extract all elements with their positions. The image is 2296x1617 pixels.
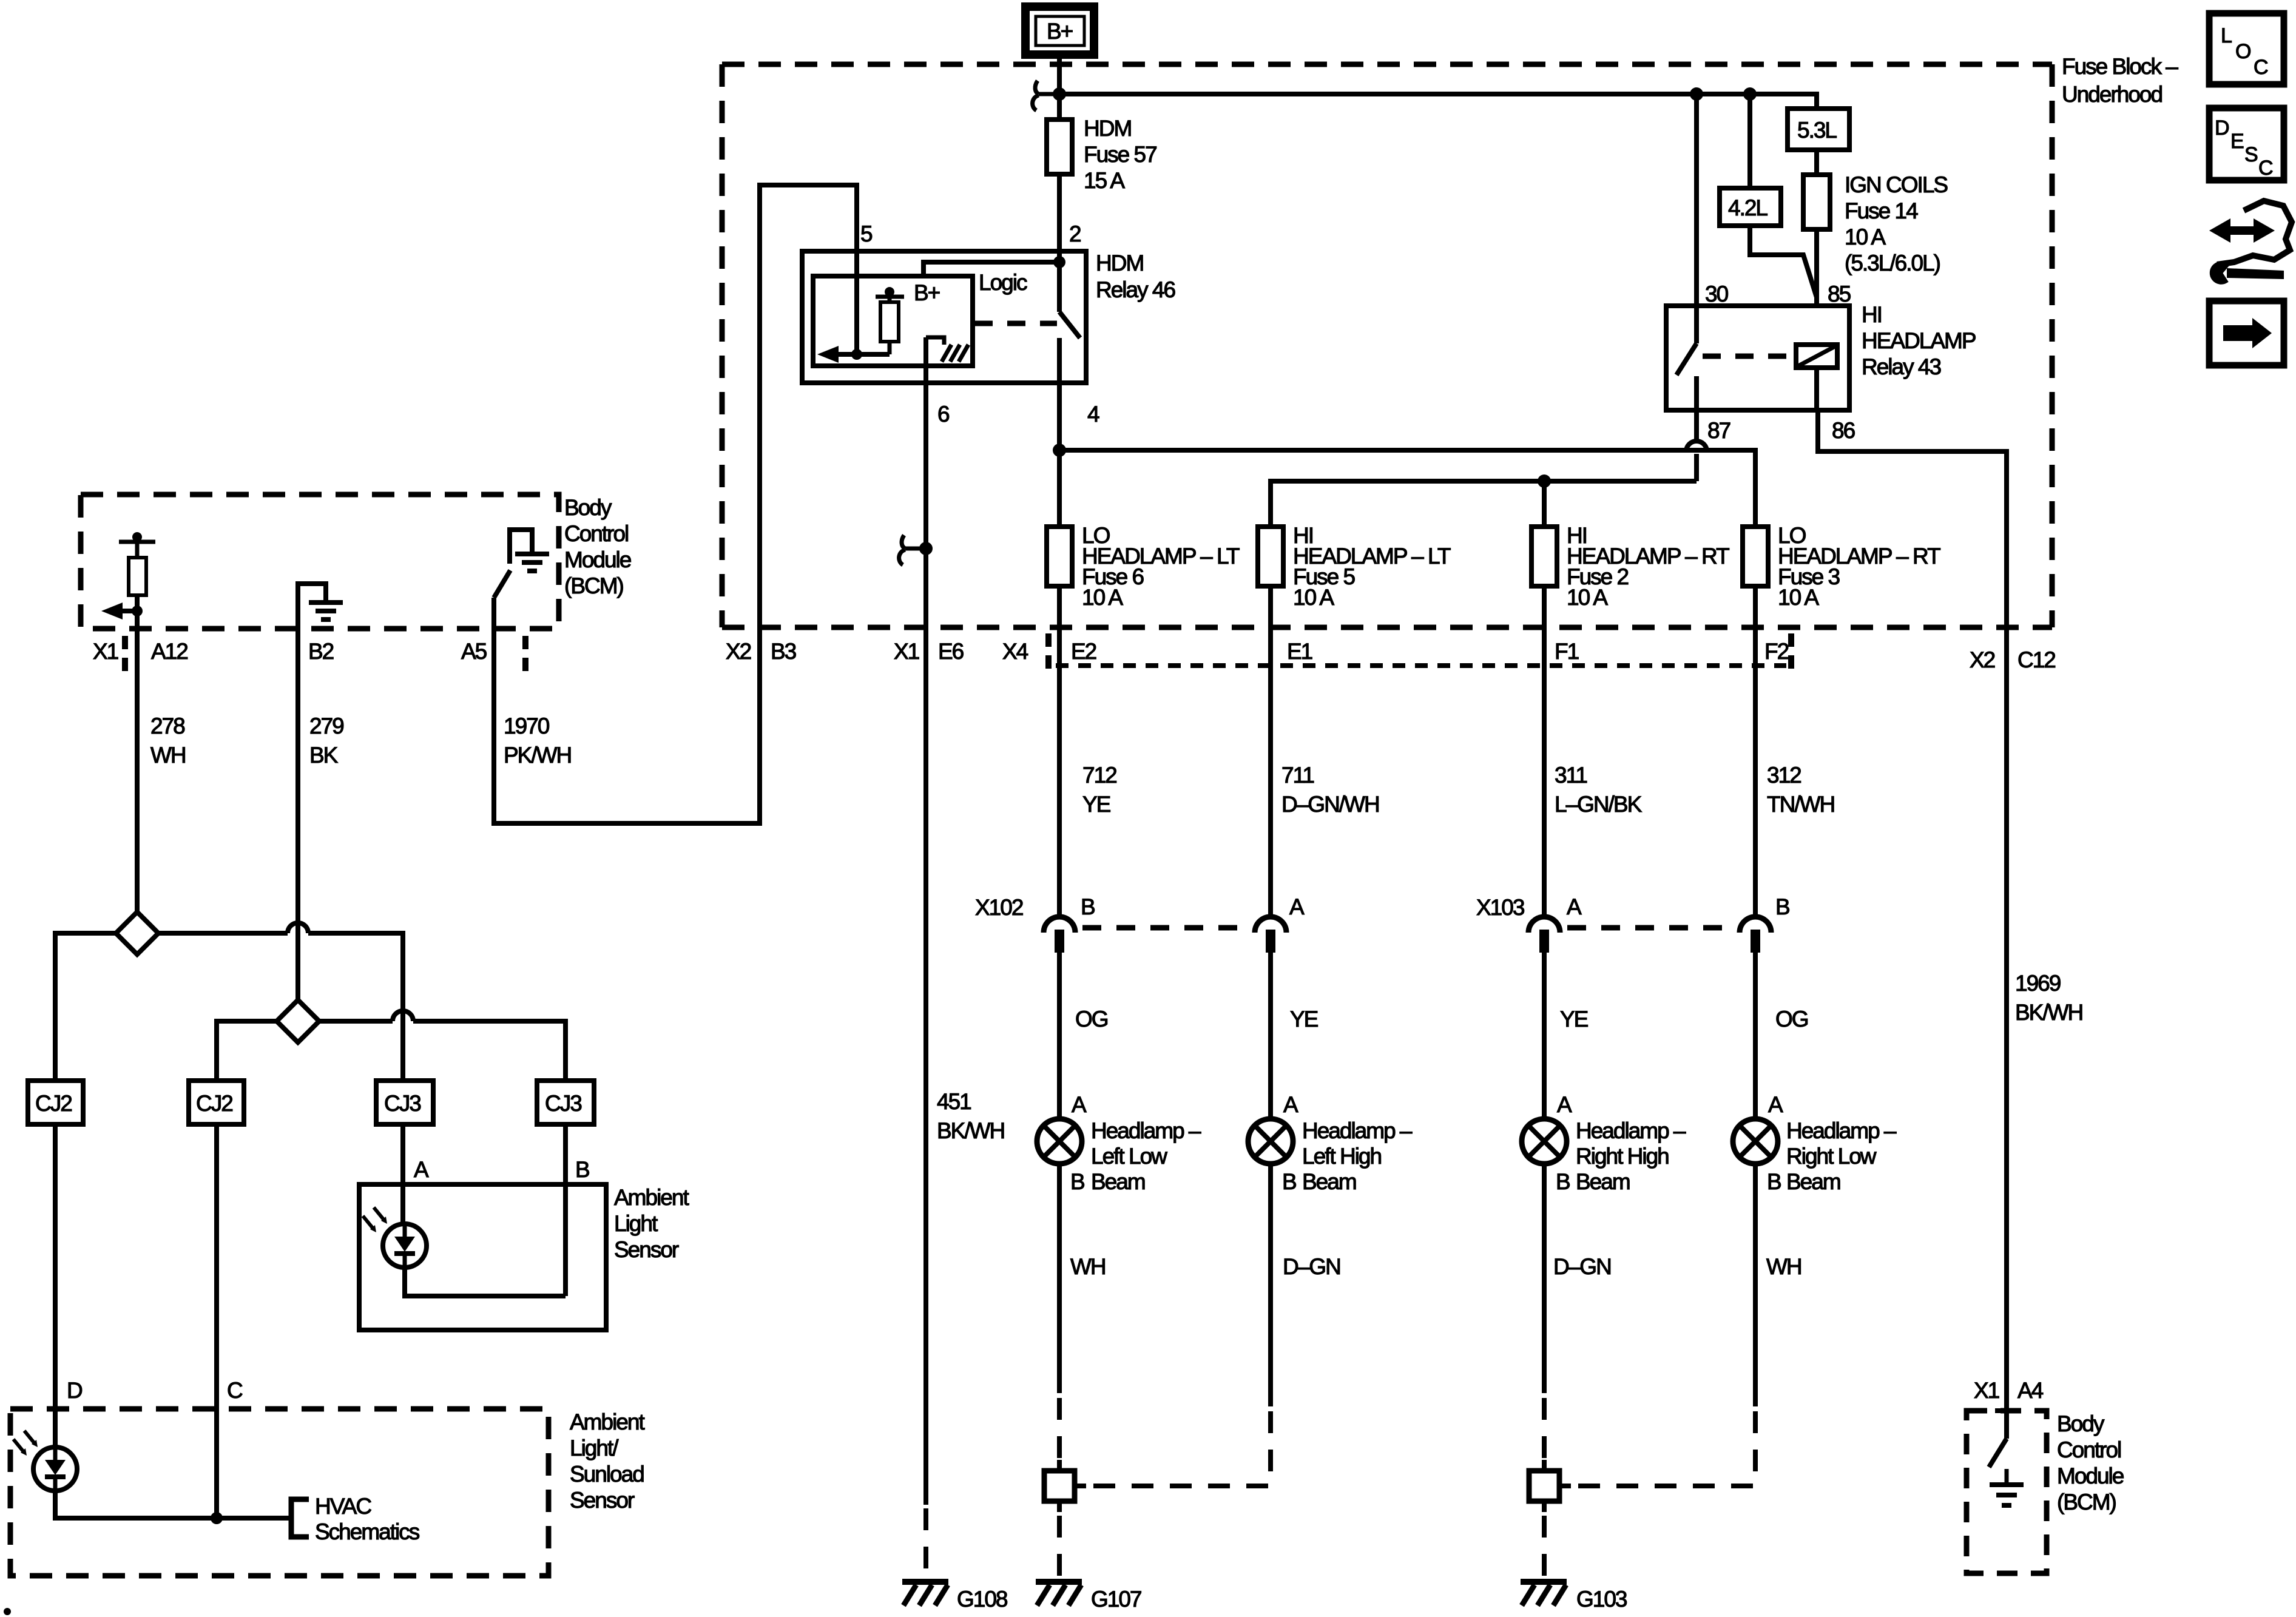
svg-text:YE: YE <box>1560 1007 1589 1031</box>
splice diamond 1 <box>116 912 158 954</box>
wire label 278 WH <box>150 714 186 768</box>
relay46 internal B+ feed wire <box>923 262 1059 276</box>
svg-text:BK: BK <box>309 743 339 768</box>
sensor photodiode <box>363 1207 427 1268</box>
svg-text:A: A <box>1768 1092 1783 1117</box>
logic internal B+ terminal <box>876 280 940 305</box>
junction dot fuse2 feed <box>1538 474 1551 488</box>
svg-text:OG: OG <box>1775 1007 1808 1031</box>
junction dot pin4 <box>1053 444 1066 457</box>
svg-text:B: B <box>1282 1169 1296 1194</box>
svg-text:G103: G103 <box>1576 1587 1627 1612</box>
svg-text:Control: Control <box>2057 1437 2121 1462</box>
wire CJ2b down to sunload box <box>214 1124 219 1518</box>
svg-text:5.3L: 5.3L <box>1797 118 1837 143</box>
wire LO feed: relay46 pin4 junction to fuse3 (line A) <box>1059 450 1755 527</box>
svg-text:87: 87 <box>1707 418 1730 443</box>
svg-text:X1: X1 <box>894 639 919 664</box>
clip symbol at E6 wire <box>899 535 927 565</box>
wire bulb2 B down <box>1268 1164 1273 1406</box>
svg-text:A: A <box>1289 894 1305 919</box>
wire label 311 L-GN/BK <box>1555 763 1643 817</box>
wire fuse57 to relay pin2 <box>1057 174 1062 262</box>
BCM A4 ground <box>1990 1469 2024 1505</box>
svg-text:O: O <box>2235 40 2251 63</box>
dashed wire bulb4 to splice2 <box>1571 1411 1755 1486</box>
sunload photodiode <box>13 1431 77 1491</box>
svg-text:B: B <box>575 1157 589 1182</box>
svg-text:6: 6 <box>937 402 949 427</box>
wire F1 fuse2 to X103 <box>1542 586 1547 917</box>
svg-text:CJ3: CJ3 <box>384 1091 420 1116</box>
wire bulb1 B down <box>1057 1164 1062 1393</box>
svg-text:A: A <box>1283 1092 1298 1117</box>
relay46 junction dot pin2 <box>1053 256 1065 268</box>
svg-text:C: C <box>227 1378 243 1403</box>
svg-text:X1: X1 <box>1974 1378 1999 1403</box>
svg-text:HDM: HDM <box>1096 251 1143 275</box>
splice diamond 2 <box>277 1000 319 1042</box>
svg-text:B+: B+ <box>1047 19 1073 44</box>
svg-text:1969: 1969 <box>2015 971 2061 996</box>
svg-text:B2: B2 <box>308 639 334 664</box>
svg-text:Fuse 14: Fuse 14 <box>1845 198 1918 223</box>
svg-text:Fuse 57: Fuse 57 <box>1084 142 1156 167</box>
svg-text:10 A: 10 A <box>1567 585 1608 610</box>
wire resistor to output line <box>888 342 892 354</box>
page dot bottom left <box>4 1608 11 1615</box>
svg-text:E6: E6 <box>938 639 964 664</box>
relay43 coil box <box>1796 345 1837 368</box>
connector CJ2 b <box>189 1081 244 1124</box>
svg-text:Headlamp –: Headlamp – <box>1302 1118 1413 1143</box>
wire F2 fuse3 to X103 <box>1753 586 1758 917</box>
connector labels X1 A4 <box>1974 1378 2044 1403</box>
connector labels along fuse block bottom <box>726 639 2055 672</box>
icon LOC box <box>2209 13 2284 84</box>
svg-text:Relay 43: Relay 43 <box>1862 354 1940 379</box>
BCM A12 resistor <box>129 558 146 595</box>
svg-text:X4: X4 <box>1002 639 1028 664</box>
BCM A12 supply terminal <box>119 532 155 558</box>
fuse LO HEADLAMP - RT Fuse 3 <box>1743 523 1940 610</box>
svg-text:D: D <box>67 1378 82 1403</box>
junction dot B+ bus <box>1053 87 1066 101</box>
svg-text:Beam: Beam <box>1091 1169 1145 1194</box>
svg-text:311: 311 <box>1555 763 1587 788</box>
svg-text:X102: X102 <box>975 895 1023 920</box>
svg-text:G107: G107 <box>1091 1587 1141 1612</box>
wire pin5 inside relay <box>854 251 859 354</box>
5.3L box <box>1788 109 1849 150</box>
connector labels X1 A12 B2 A5 <box>93 636 525 672</box>
svg-text:2: 2 <box>1069 221 1081 246</box>
junction dot E6 clip <box>919 542 933 555</box>
svg-text:YE: YE <box>1290 1007 1319 1031</box>
HVAC schematics bracket <box>291 1494 420 1544</box>
wire relay43 pin87 down with hop <box>1686 410 1707 481</box>
icon wrench with arrows <box>2209 201 2292 283</box>
svg-text:Beam: Beam <box>1786 1169 1840 1194</box>
svg-text:86: 86 <box>1832 418 1855 443</box>
svg-text:278: 278 <box>150 714 184 738</box>
svg-text:PK/WH: PK/WH <box>504 743 571 768</box>
svg-text:Right High: Right High <box>1576 1144 1669 1169</box>
wire label 312 TN/WH <box>1767 763 1834 817</box>
fuse block underhood dashed boundary <box>722 64 2052 627</box>
icon DESC box <box>2209 108 2284 180</box>
svg-text:X2: X2 <box>726 639 751 664</box>
svg-text:D: D <box>2215 116 2230 140</box>
wire A12 down <box>135 611 140 912</box>
svg-text:BK/WH: BK/WH <box>937 1118 1004 1143</box>
wire fuse2 feed down <box>1542 481 1547 527</box>
wire bulb4 B down <box>1753 1164 1758 1406</box>
4.2L box <box>1720 188 1781 226</box>
svg-text:A5: A5 <box>461 639 487 664</box>
wire label 712 YE <box>1082 763 1116 817</box>
svg-text:Beam: Beam <box>1576 1169 1630 1194</box>
svg-text:A: A <box>1557 1092 1572 1117</box>
svg-text:A12: A12 <box>151 639 187 664</box>
bulb headlamp right low beam <box>1733 1092 1897 1194</box>
Ambient Light/Sunload Sensor dashed box <box>10 1409 645 1576</box>
svg-text:Sunload: Sunload <box>570 1462 644 1487</box>
svg-text:A4: A4 <box>2017 1378 2044 1403</box>
svg-text:OG: OG <box>1075 1007 1108 1031</box>
svg-text:Underhood: Underhood <box>2062 82 2163 107</box>
fuse HI HEADLAMP - LT Fuse 5 <box>1258 523 1451 610</box>
svg-text:Headlamp –: Headlamp – <box>1576 1118 1686 1143</box>
wire label 711 D-GN/WH <box>1281 763 1379 817</box>
svg-text:Ambient: Ambient <box>614 1185 689 1210</box>
wire E2 fuse6 to X102 <box>1057 586 1062 917</box>
svg-text:HEADLAMP: HEADLAMP <box>1862 328 1976 353</box>
svg-text:B: B <box>1070 1169 1084 1194</box>
B+ power symbol <box>1025 7 1094 55</box>
svg-text:L–GN/BK: L–GN/BK <box>1555 792 1643 817</box>
svg-text:Logic: Logic <box>979 270 1027 295</box>
svg-text:Right Low: Right Low <box>1786 1144 1877 1169</box>
connector X4 dashed line <box>1048 633 1791 670</box>
svg-text:451: 451 <box>937 1089 971 1114</box>
svg-text:711: 711 <box>1281 763 1314 788</box>
svg-text:C: C <box>2258 157 2274 180</box>
wire CJ2a down to sunload box <box>53 1124 58 1448</box>
ground G103 <box>1521 1582 1627 1612</box>
svg-text:A: A <box>1072 1092 1087 1117</box>
dashed wire bulb3 to splice <box>1542 1398 1547 1463</box>
wire coil to pin86 <box>1814 368 1819 410</box>
svg-text:X103: X103 <box>1476 895 1524 920</box>
wire X102A to bulb2 <box>1268 953 1273 1119</box>
svg-text:10 A: 10 A <box>1778 585 1819 610</box>
clip symbol at B+ junction <box>1033 81 1059 110</box>
svg-text:Left Low: Left Low <box>1091 1144 1167 1169</box>
dashed wire splice2 to G103 <box>1542 1516 1547 1579</box>
BCM bottom-right label <box>2057 1411 2124 1514</box>
wire 4.2L to pin85 <box>1750 226 1817 297</box>
svg-text:15 A: 15 A <box>1084 168 1125 193</box>
BCM bottom-right dashed box <box>1967 1411 2047 1573</box>
wire IGN fuse to relay43 pin85 <box>1814 229 1819 306</box>
svg-text:Headlamp –: Headlamp – <box>1786 1118 1897 1143</box>
bus wire to 5.3L <box>1059 94 1817 109</box>
logic junction dot pin5 <box>851 349 862 360</box>
wire relay43 pin86 to right edge <box>1818 410 2007 1411</box>
wire relay pin6 down through E6 <box>923 337 928 1505</box>
relay46 switch blade <box>1059 262 1080 338</box>
fuse IGN COILS Fuse 14 <box>1803 172 1947 275</box>
BCM A12 output arrow <box>101 595 143 619</box>
connector CJ3 b <box>537 1081 594 1124</box>
svg-text:X2: X2 <box>1970 647 1995 672</box>
svg-text:10 A: 10 A <box>1293 585 1334 610</box>
svg-text:1970: 1970 <box>504 714 550 738</box>
svg-text:(BCM): (BCM) <box>2057 1490 2116 1514</box>
bulb headlamp right high beam <box>1522 1092 1686 1194</box>
wire CJ3a down to sensor <box>400 1124 405 1224</box>
svg-text:B: B <box>1767 1169 1781 1194</box>
svg-text:30: 30 <box>1705 282 1729 306</box>
wire sunload diode to HVAC <box>55 1490 291 1518</box>
connector CJ3 a <box>376 1081 433 1124</box>
bulb headlamp left low beam <box>1037 1092 1201 1194</box>
svg-text:CJ2: CJ2 <box>196 1091 232 1116</box>
svg-text:B3: B3 <box>771 639 796 664</box>
svg-text:B: B <box>1556 1169 1570 1194</box>
wire 5.3L to IGN fuse <box>1814 150 1819 175</box>
icon arrow box <box>2209 301 2284 365</box>
svg-text:E2: E2 <box>1071 639 1096 664</box>
svg-text:HI: HI <box>1862 302 1882 327</box>
logic output wire with left arrow <box>817 346 890 363</box>
junction dot bus relay30 <box>1690 87 1703 101</box>
svg-text:YE: YE <box>1082 792 1111 817</box>
svg-text:IGN COILS: IGN COILS <box>1845 172 1947 197</box>
splice square 2 <box>1529 1460 1571 1512</box>
svg-text:A: A <box>1567 894 1582 919</box>
relay43 switch blade <box>1676 306 1697 410</box>
svg-text:X1: X1 <box>93 639 118 664</box>
fuse HI HEADLAMP - RT Fuse 2 <box>1531 523 1729 610</box>
junction dot bus 4.2L <box>1743 87 1757 101</box>
wire diamond1 left branch to CJ2a <box>55 933 116 1081</box>
svg-text:4.2L: 4.2L <box>1728 195 1768 220</box>
svg-text:TN/WH: TN/WH <box>1767 792 1834 817</box>
dashed wire bulb1 to splice <box>1057 1398 1062 1463</box>
svg-text:D–GN: D–GN <box>1283 1254 1340 1279</box>
svg-text:C: C <box>2254 56 2269 79</box>
logic resistor (coil) <box>880 302 899 342</box>
svg-text:C12: C12 <box>2017 647 2055 672</box>
svg-text:Control: Control <box>564 521 628 546</box>
svg-text:312: 312 <box>1767 763 1801 788</box>
wire B2 down <box>295 629 300 1000</box>
wire bus to 4.2L <box>1747 94 1752 188</box>
svg-text:Relay 46: Relay 46 <box>1096 277 1175 302</box>
wire bulb3 B down <box>1542 1164 1547 1393</box>
svg-text:4: 4 <box>1087 402 1099 427</box>
ground G107 <box>1036 1582 1141 1612</box>
connector X103 <box>1476 894 1789 953</box>
svg-text:S: S <box>2244 143 2258 166</box>
dashed wire splice1 to G107 <box>1057 1516 1062 1579</box>
svg-text:Body: Body <box>2057 1411 2105 1436</box>
relay46 logic box <box>813 276 973 366</box>
ground G108 <box>902 1582 1007 1612</box>
svg-text:E1: E1 <box>1287 639 1312 664</box>
relay46 switch dashed actuator line <box>974 321 1057 326</box>
svg-text:5: 5 <box>860 221 873 246</box>
svg-text:Ambient: Ambient <box>570 1409 645 1434</box>
svg-text:F1: F1 <box>1555 639 1579 664</box>
BCM B2 ground <box>298 584 343 629</box>
svg-text:CJ2: CJ2 <box>35 1091 72 1116</box>
svg-text:(5.3L/6.0L): (5.3L/6.0L) <box>1845 251 1940 275</box>
svg-text:Beam: Beam <box>1302 1169 1356 1194</box>
svg-text:Left High: Left High <box>1302 1144 1382 1169</box>
wire E1 fuse5 to X102 <box>1268 586 1273 917</box>
svg-text:HDM: HDM <box>1084 116 1131 141</box>
svg-text:Schematics: Schematics <box>315 1519 420 1544</box>
svg-text:L: L <box>2221 24 2232 47</box>
svg-text:CJ3: CJ3 <box>545 1091 581 1116</box>
svg-text:E: E <box>2230 130 2244 153</box>
BCM label <box>564 495 631 598</box>
svg-text:F2: F2 <box>1764 639 1789 664</box>
svg-text:712: 712 <box>1082 763 1116 788</box>
svg-text:WH: WH <box>1766 1254 1801 1279</box>
svg-text:Sensor: Sensor <box>570 1488 635 1513</box>
splice square 1 <box>1044 1460 1086 1512</box>
wire X102B to bulb1 <box>1057 953 1062 1119</box>
svg-text:D–GN/WH: D–GN/WH <box>1281 792 1379 817</box>
fuse HDM Fuse 57 <box>1047 116 1156 193</box>
svg-text:A: A <box>414 1157 429 1182</box>
logic ground symbol <box>926 337 968 362</box>
wire label 279 BK <box>309 714 343 768</box>
svg-text:Light/: Light/ <box>570 1436 619 1460</box>
svg-text:BK/WH: BK/WH <box>2015 1000 2082 1025</box>
wire X103A to bulb3 <box>1542 953 1547 1119</box>
wire relay pin5 elbow to B3 <box>494 185 857 823</box>
svg-text:Headlamp –: Headlamp – <box>1091 1118 1201 1143</box>
dashed wire bulb2 to splice1 <box>1086 1411 1271 1486</box>
svg-text:HVAC: HVAC <box>315 1494 371 1519</box>
connector CJ2 a <box>28 1081 83 1124</box>
sensor internal loop wire <box>405 1267 566 1296</box>
svg-text:10 A: 10 A <box>1082 585 1123 610</box>
wire diamond1 right branch to CJ3a with hop <box>158 923 403 1081</box>
BCM A5 switch to ground <box>494 530 549 629</box>
relay43 dashed actuator line <box>1703 354 1791 359</box>
svg-text:Fuse Block –: Fuse Block – <box>2062 54 2178 79</box>
svg-text:(BCM): (BCM) <box>564 573 624 598</box>
wire label 1969 BK/WH <box>2015 971 2082 1025</box>
wire B+ to bus <box>1057 58 1062 120</box>
wire label 1970 PK/WH <box>504 714 571 768</box>
wire bus to relay43 pin30 <box>1694 94 1699 306</box>
wire X103B to bulb4 <box>1753 953 1758 1119</box>
svg-text:Module: Module <box>2057 1463 2124 1488</box>
svg-text:B: B <box>1775 894 1789 919</box>
wire label 451 BK/WH <box>937 1089 1004 1143</box>
svg-text:B: B <box>1081 894 1095 919</box>
wire diamond2 left branch to CJ2b <box>217 1021 277 1081</box>
svg-text:WH: WH <box>150 743 186 768</box>
svg-text:Body: Body <box>564 495 612 520</box>
junction dot C wire <box>211 1512 223 1524</box>
BCM top-left dashed box <box>81 495 559 629</box>
Ambient Light Sensor box <box>359 1184 689 1330</box>
svg-text:Light: Light <box>614 1211 658 1236</box>
HDM Relay 46 box <box>802 251 1175 383</box>
wire HI feed: pin87 to fuse5 (line B) <box>1271 481 1697 527</box>
BCM A4 pin tick <box>1995 1408 2019 1413</box>
svg-text:WH: WH <box>1070 1254 1106 1279</box>
bulb headlamp left high beam <box>1248 1092 1413 1194</box>
connector X102 <box>975 894 1305 953</box>
svg-text:B+: B+ <box>914 280 940 305</box>
dashed wire 451 to G108 <box>923 1508 928 1579</box>
svg-text:85: 85 <box>1828 282 1851 306</box>
svg-text:10 A: 10 A <box>1845 224 1886 249</box>
fuse LO HEADLAMP - LT Fuse 6 <box>1047 523 1240 610</box>
svg-text:Sensor: Sensor <box>614 1237 679 1262</box>
fuse block label <box>2062 54 2178 107</box>
svg-text:Module: Module <box>564 547 631 572</box>
wire diamond2 right branch to CJ3b with hop <box>319 1011 566 1081</box>
svg-text:279: 279 <box>309 714 343 738</box>
wire relay pin4 down <box>1057 338 1062 527</box>
wire CJ3b down to sensor <box>563 1124 568 1296</box>
HI HEADLAMP Relay 43 box <box>1666 302 1976 410</box>
svg-text:G108: G108 <box>957 1587 1007 1612</box>
svg-text:D–GN: D–GN <box>1553 1254 1611 1279</box>
BCM A4 switch <box>1989 1411 2007 1467</box>
